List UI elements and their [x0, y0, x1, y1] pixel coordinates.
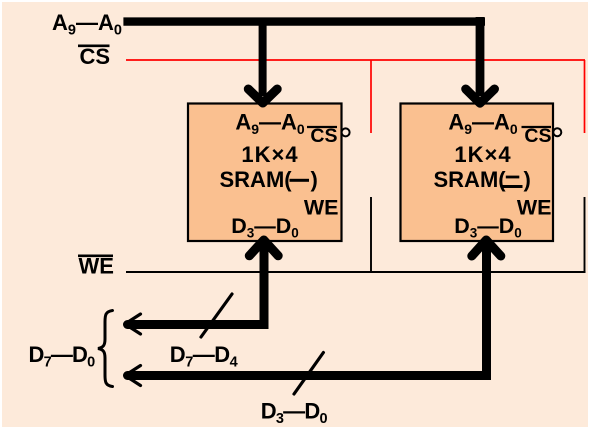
svg-text:): ) [524, 167, 531, 192]
wire: red CS drop to SRAM(2) [584, 60, 586, 133]
svg-text:1K×4: 1K×4 [454, 142, 511, 167]
svg-text:A9—A0: A9—A0 [52, 10, 122, 39]
label WE (overlined) [78, 255, 113, 258]
svg-text:D7—D0: D7—D0 [29, 342, 96, 371]
U2 pin label CS (overlined, active low) [522, 126, 552, 128]
svg-text:CS: CS [80, 44, 111, 69]
svg-text:D3—D0: D3—D0 [261, 399, 328, 427]
wire: WE net horizontal [126, 271, 586, 273]
data bus D3-D0 from U2 [128, 247, 487, 376]
svg-text:CS: CS [310, 125, 337, 147]
pin bubble CS U1 [342, 128, 350, 136]
svg-text:WE: WE [79, 254, 114, 279]
arrowhead left end of D3-D0 bus [125, 366, 141, 386]
arrowhead into U2 top [466, 89, 495, 103]
arrowhead left end of D7-D4 bus [125, 314, 141, 334]
SRAM chip U2 body [401, 104, 554, 242]
svg-text:D7—D4: D7—D4 [170, 342, 238, 371]
arrowhead into U1 top [248, 89, 277, 103]
svg-text:SRAM(: SRAM( [434, 167, 507, 192]
svg-text:): ) [311, 167, 318, 192]
arrowhead up into U1 bottom [249, 240, 278, 256]
brace for D7-D0 [98, 311, 113, 387]
wire: red CS select net horizontal [126, 59, 585, 61]
svg-text:D3—D0: D3—D0 [231, 214, 299, 241]
data bus D7-D4 from U1 [128, 247, 265, 325]
pin bubble CS U2 [553, 128, 561, 136]
svg-text:A9—A0: A9—A0 [235, 110, 305, 138]
address bus A9-A0 thick horizontal [123, 17, 485, 25]
label CS (overlined) [78, 44, 110, 47]
svg-text:D3—D0: D3—D0 [454, 214, 522, 241]
U1 pin label CS (overlined, active low) [307, 126, 337, 128]
SRAM chip U1 body [188, 104, 342, 242]
arrowhead up into U2 bottom [472, 240, 501, 256]
svg-text:1K×4: 1K×4 [241, 142, 298, 167]
wire: red CS drop to SRAM(1) [370, 60, 372, 133]
address bus drop into U2 [476, 17, 485, 96]
wire: WE riser to SRAM(1) [370, 197, 372, 272]
bus width slash D3-D0 [294, 353, 323, 395]
bus width slash D7-D4 [201, 294, 232, 337]
svg-text:WE: WE [517, 196, 552, 220]
svg-text:WE: WE [304, 196, 339, 220]
svg-text:CS: CS [524, 125, 551, 147]
svg-text:A9—A0: A9—A0 [448, 110, 518, 138]
svg-text:SRAM(: SRAM( [220, 167, 293, 192]
wire: WE riser to SRAM(2) [584, 197, 586, 273]
address bus drop into U1 [259, 18, 267, 96]
